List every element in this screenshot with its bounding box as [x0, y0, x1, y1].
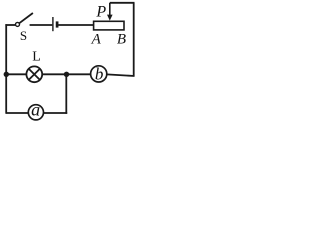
wire left rail: [5, 24, 7, 114]
wire lamp branch left: [6, 73, 26, 75]
slider arrow shaft P: [109, 3, 111, 17]
rheostat body R: [94, 21, 124, 30]
wire slider to top-right corner: [110, 2, 135, 4]
wire meter b to right rail: [107, 74, 135, 76]
wire bottom left segment: [6, 112, 28, 114]
svg-text:A: A: [91, 31, 102, 47]
lamp L: [26, 66, 42, 82]
svg-text:P: P: [95, 4, 106, 21]
slider arrowhead: [107, 15, 113, 21]
switch S lever: [19, 13, 33, 23]
wire switch to battery: [30, 24, 53, 26]
wire junction to meter b: [67, 73, 91, 75]
node junction left: [4, 72, 9, 77]
wire battery to rheostat terminal A: [58, 24, 93, 26]
svg-text:a: a: [31, 100, 40, 120]
battery long plate (+): [52, 17, 54, 31]
meter b: [91, 66, 107, 82]
wire bottom right segment: [43, 112, 67, 114]
wire lamp to junction: [42, 73, 66, 75]
wire loop right side down: [65, 74, 67, 114]
wire right rail: [133, 3, 135, 77]
node junction right: [64, 72, 69, 77]
svg-text:L: L: [32, 50, 41, 65]
svg-text:b: b: [95, 65, 104, 84]
battery short thick plate (-): [56, 21, 59, 27]
wire top-left to switch: [5, 24, 15, 26]
switch S pivot: [16, 22, 20, 26]
meter a: [28, 105, 43, 120]
svg-text:B: B: [117, 31, 126, 47]
svg-text:S: S: [20, 28, 27, 43]
